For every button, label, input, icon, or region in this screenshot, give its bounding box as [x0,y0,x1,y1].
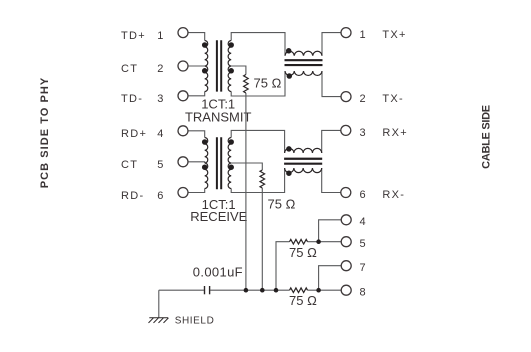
svg-text:4: 4 [359,216,366,228]
junction dot R3 branch at shield bus [274,288,279,293]
terminal circle pin 4 left [178,126,188,136]
T2 core [217,137,221,189]
junction dot R3 right [316,239,321,244]
wire choke L2 top-right to pin 3 [322,130,341,153]
wire pin6 to T2 primary bottom [188,189,205,193]
choke L2 top winding [285,148,322,153]
terminal circle pin 1 left [178,28,188,38]
svg-text:75 Ω: 75 Ω [268,197,296,212]
choke L2 dot bottom [286,170,292,176]
choke L1 core [285,60,323,65]
svg-text:7: 7 [359,262,366,274]
svg-text:RECEIVE: RECEIVE [190,209,247,224]
svg-text:8: 8 [359,287,366,299]
svg-text:SHIELD: SHIELD [175,316,215,327]
resistor R2 zigzag (receive 75 ohm) [260,170,265,188]
svg-text:CT: CT [121,63,138,75]
T2 primary winding [205,138,208,189]
wire shield bus branch to R3 [276,242,290,291]
wire pin4 to T2 primary top [188,131,205,138]
terminal circle pin 8 right [341,285,351,295]
capacitor C1 right plate [209,286,211,294]
T1 primary winding [205,41,208,92]
wire T1 secondary top to choke L1 top-left [231,33,285,56]
svg-text:75 Ω: 75 Ω [289,245,317,260]
choke L1 dot bottom [287,73,293,79]
svg-text:3: 3 [157,93,164,105]
svg-text:RX-: RX- [382,189,405,201]
svg-text:CT: CT [121,159,138,171]
wire shield bus right of capacitor [210,289,289,291]
wire choke L1 top-right to pin 1 [322,33,341,56]
svg-text:TD+: TD+ [121,30,146,42]
terminal circle pin 6 right [341,188,351,198]
wire T1 secondary bottom to choke L1 bottom-left [231,71,285,96]
wire T2 secondary bottom to choke L2 bottom-left [231,168,284,193]
wire choke L1 bottom-right to pin 2 [322,71,341,97]
wire R4 right to pin 8 [308,289,342,291]
T2 secondary winding [228,138,231,189]
T2 phase dot secondary top [228,139,234,145]
T1 core [217,40,221,91]
wire R3 right to pin 5 [308,241,342,243]
terminal circle pin 2 left [178,61,188,71]
svg-text:0.001uF: 0.001uF [193,265,243,280]
wire shield stem [158,290,160,318]
svg-text:2: 2 [359,93,366,105]
wire T2 center tap to R2 [231,163,262,170]
wire pin1 to T1 primary top [188,33,205,41]
T2 phase dot secondary lower [228,164,234,170]
terminal circle pin 4 right [341,215,351,225]
terminal circle pin 7 right [341,261,351,271]
wire pin3 to T1 primary bottom [188,92,205,96]
svg-text:6: 6 [359,189,366,201]
svg-text:RX+: RX+ [382,127,408,139]
wire R1 bottom to shield bus [245,93,247,290]
wire junction to pin 4 [319,220,342,242]
wire shield bus left of capacitor [159,289,204,291]
svg-text:TX+: TX+ [382,29,406,41]
choke L1 dot top [286,48,292,54]
terminal circle pin 1 right [341,28,351,38]
terminal circle pin 3 left [178,91,188,101]
choke L2 dot top [286,146,292,152]
svg-text:3: 3 [359,127,366,139]
wire T2 secondary top to choke L2 top-left [231,130,284,153]
T2 phase dot primary lower [202,164,208,170]
resistor R3 zigzag (pins 4-5 75 ohm) [290,239,308,244]
ground symbol (chassis) [149,318,169,323]
wire pin2 to T1 primary center tap [188,65,205,67]
T2 phase dot primary top [202,139,208,145]
terminal circle pin 2 right [341,92,351,102]
svg-text:CABLE SIDE: CABLE SIDE [481,105,493,169]
terminal circle pin 5 right [341,237,351,247]
T1 phase dot primary lower [202,68,208,74]
wire junction to pin 7 [319,266,342,291]
svg-text:RD+: RD+ [121,128,147,140]
T1 phase dot secondary lower [228,68,234,74]
wire choke L2 bottom-right to pin 6 [322,168,341,193]
svg-text:PCB SIDE TO PHY: PCB SIDE TO PHY [39,77,51,189]
T1 secondary winding [228,41,231,92]
choke L2 bottom winding [285,168,322,173]
resistor R4 zigzag (pins 7-8 75 ohm) [290,288,308,293]
junction dot R2 at shield bus [260,288,265,293]
wire pin5 to T2 primary center tap [188,162,205,163]
svg-text:5: 5 [157,159,164,171]
svg-text:1: 1 [359,29,366,41]
choke L1 top winding [285,51,322,55]
svg-text:2: 2 [157,63,164,75]
choke L1 bottom winding [285,71,322,75]
junction dot R1 at shield bus [244,288,249,293]
T1 phase dot secondary top [228,42,234,48]
svg-text:TX-: TX- [382,93,404,105]
wire R2 bottom to shield bus [261,188,263,290]
T1 phase dot primary top [202,42,208,48]
junction dot R4 right [316,288,321,293]
svg-text:1: 1 [157,30,164,42]
svg-text:TD-: TD- [121,93,143,105]
resistor R1 zigzag (transmit 75 ohm) [244,75,249,93]
choke L2 core [284,159,322,164]
svg-text:RD-: RD- [121,190,144,202]
terminal circle pin 6 left [178,188,188,198]
svg-text:75 Ω: 75 Ω [254,75,282,90]
capacitor C1 left plate [204,286,206,294]
svg-text:6: 6 [157,190,164,202]
svg-text:5: 5 [359,238,366,250]
svg-text:75 Ω: 75 Ω [289,293,317,308]
terminal circle pin 5 left [178,157,188,167]
wire T1 center tap to R1 [231,66,246,75]
svg-text:TRANSMIT: TRANSMIT [185,109,252,124]
svg-text:4: 4 [157,128,164,140]
terminal circle pin 3 right [341,125,351,135]
